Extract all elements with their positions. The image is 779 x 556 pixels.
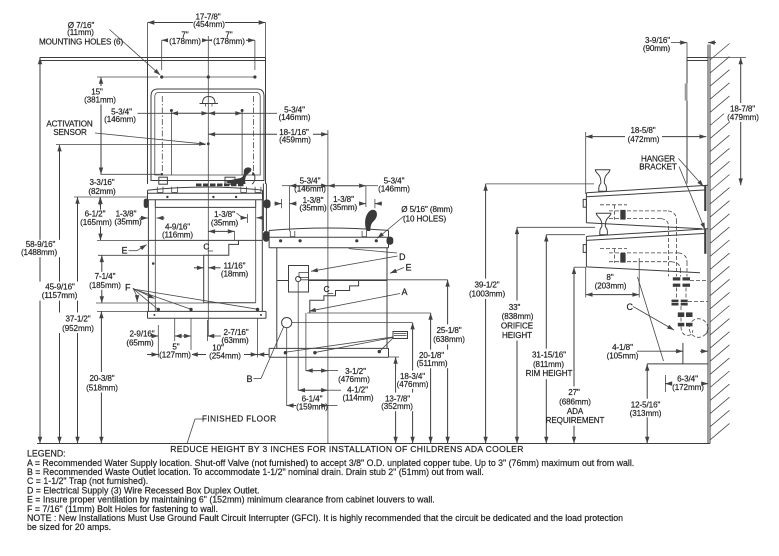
text 2-7/16 — [221, 328, 249, 345]
svg-text:7-1/4": 7-1/4" — [95, 272, 116, 281]
dim 18-3/4 — [292, 323, 413, 444]
bottle filler front panel outer — [151, 89, 264, 181]
dim 33 orifice height — [517, 227, 595, 443]
svg-text:(146mm): (146mm) — [294, 185, 326, 194]
wall section — [708, 45, 710, 444]
dim 31-15/16 rim height — [546, 235, 585, 444]
upper cooler side profile — [583, 185, 708, 229]
leader D — [311, 249, 398, 272]
svg-text:(127mm): (127mm) — [159, 351, 191, 360]
leader finished floor — [187, 419, 203, 444]
svg-text:SENSOR: SENSOR — [53, 128, 87, 137]
left basin band — [148, 190, 263, 200]
text 6-3/4 — [665, 375, 708, 392]
text 1-3/8 (a) — [114, 210, 142, 227]
dim 27 ADA — [574, 267, 586, 443]
svg-text:(686mm): (686mm) — [559, 397, 591, 406]
svg-text:(352mm): (352mm) — [381, 402, 413, 411]
left cooler mounting ear left — [144, 199, 149, 208]
svg-text:FINISHED FLOOR: FINISHED FLOOR — [202, 415, 277, 424]
centerline symbol right — [324, 284, 334, 294]
text oslash 5/16 — [401, 205, 453, 223]
text activation sensor — [46, 120, 93, 137]
right cooler mounting ear left — [263, 231, 269, 242]
lower cooler regulator valve — [620, 253, 625, 263]
dim 5-3/4 right cooler right — [328, 186, 378, 207]
text 27 ADA — [546, 386, 605, 425]
right cooler back panel step — [310, 281, 359, 314]
svg-text:(35mm): (35mm) — [299, 204, 327, 213]
svg-text:F: F — [125, 282, 131, 292]
svg-text:(116mm): (116mm) — [162, 230, 193, 239]
dim 5 inch — [147, 318, 191, 357]
svg-text:C: C — [627, 302, 634, 312]
right cooler cabinet — [277, 248, 387, 349]
svg-text:(90mm): (90mm) — [643, 44, 671, 53]
dim 7 inch pair — [162, 40, 255, 70]
leader B — [254, 327, 284, 379]
upper cooler hidden plumbing — [600, 205, 676, 277]
dim 6-1/4 — [287, 328, 328, 406]
svg-text:(63mm): (63mm) — [221, 336, 249, 345]
louver leader fan — [287, 337, 393, 352]
left cooler bottom bracket — [148, 311, 267, 318]
svg-text:HEIGHT: HEIGHT — [502, 331, 532, 340]
text 7-1/4 — [88, 272, 122, 290]
left basin drain grate — [196, 183, 244, 186]
svg-text:31-15/16": 31-15/16" — [532, 350, 566, 359]
left cooler cabinet — [148, 200, 262, 312]
text 7 inch right — [212, 31, 246, 47]
svg-text:(114mm): (114mm) — [342, 394, 373, 403]
svg-text:(811mm): (811mm) — [533, 360, 564, 369]
dim 18-5/8 — [586, 132, 707, 194]
text 18-7/8 — [724, 103, 761, 122]
right basin band — [269, 231, 388, 248]
leader C trap — [633, 307, 674, 331]
dim 7-1/4 — [96, 255, 204, 303]
left basin slots — [157, 187, 261, 193]
lower cooler hidden plumbing — [600, 249, 687, 277]
svg-text:(146mm): (146mm) — [104, 115, 136, 124]
text 4-1/8 — [607, 343, 639, 360]
left cooler bracket bolt holes — [157, 308, 260, 311]
svg-text:(454mm): (454mm) — [193, 20, 225, 29]
svg-text:ORIFICE: ORIFICE — [501, 322, 534, 331]
svg-text:C: C — [324, 284, 330, 294]
dim 15 inch — [97, 77, 160, 174]
svg-text:27": 27" — [568, 388, 580, 397]
text 37-1/2 — [56, 313, 99, 334]
right cooler mounting ear right — [387, 237, 394, 245]
text 18-5/8 — [625, 125, 662, 143]
svg-text:D: D — [399, 252, 406, 262]
svg-text:3-3/16": 3-3/16" — [89, 178, 114, 187]
text 10 inch — [206, 344, 244, 361]
left cooler back panel step — [204, 240, 256, 302]
text 1-3/8 (c) — [299, 196, 327, 213]
lower mounting holes — [160, 173, 254, 176]
connecting side panel — [262, 184, 264, 232]
svg-text:(178mm): (178mm) — [213, 37, 245, 46]
F bolt hole leader fan — [133, 288, 256, 309]
leader E left — [129, 245, 147, 251]
svg-text:E: E — [406, 262, 412, 272]
text 4-9/16 — [162, 223, 193, 240]
text 11/16 — [221, 261, 249, 278]
right cooler seam — [277, 280, 387, 282]
lower side bubbler — [596, 213, 611, 235]
dim 6-1/2 — [97, 197, 148, 240]
svg-text:(35mm): (35mm) — [114, 218, 142, 227]
left basin deck — [148, 187, 263, 190]
text 12-5/16 — [627, 399, 665, 418]
svg-text:(476mm): (476mm) — [397, 380, 429, 389]
svg-text:(18mm): (18mm) — [221, 269, 249, 278]
text 5 inch — [159, 343, 192, 360]
svg-text:(838mm): (838mm) — [502, 312, 534, 321]
svg-text:(638mm): (638mm) — [433, 335, 465, 344]
left basin bolt dots — [166, 196, 237, 198]
text 58-9/16 — [17, 240, 61, 257]
dim 1-3/8 (a) — [140, 217, 165, 219]
left cooler seam — [148, 239, 262, 241]
svg-text:(165mm): (165mm) — [80, 218, 112, 227]
bottle filler front panel inner — [155, 93, 260, 176]
dim 4-1/8 — [637, 350, 708, 352]
svg-text:(159mm): (159mm) — [296, 403, 328, 412]
dim 1-3/8 (d) — [359, 199, 382, 208]
vertical pipes dashed — [676, 281, 708, 323]
svg-text:(511mm): (511mm) — [416, 359, 447, 368]
svg-text:C: C — [203, 242, 209, 252]
bottle filler cabinet top cap — [40, 58, 266, 61]
svg-text:33": 33" — [509, 303, 521, 312]
svg-text:be sized for 20 amps.: be sized for 20 amps. — [27, 522, 111, 532]
svg-text:(313mm): (313mm) — [630, 409, 662, 418]
dim 37-1/2 vertical — [74, 197, 148, 444]
text 45-9/16 — [37, 282, 82, 301]
svg-text:RIM HEIGHT: RIM HEIGHT — [526, 369, 573, 378]
dim 11/16 — [194, 267, 221, 269]
text 39-1/2 — [468, 279, 507, 299]
svg-text:18-5/8": 18-5/8" — [630, 126, 655, 135]
svg-text:(952mm): (952mm) — [62, 324, 94, 333]
text hanger bracket — [639, 154, 677, 171]
left cooler mounting ear right — [264, 200, 271, 209]
dim 5-3/4 top-right — [208, 112, 277, 114]
svg-text:(11mm): (11mm) — [67, 28, 94, 37]
svg-text:(35mm): (35mm) — [330, 203, 358, 212]
svg-text:2-9/16": 2-9/16" — [129, 330, 154, 339]
text mounting holes note — [39, 21, 123, 47]
right basin slots — [290, 231, 366, 237]
waste stub — [647, 343, 708, 364]
leader oslash 5/16 — [377, 216, 404, 238]
dim 13-7/8 — [389, 357, 399, 444]
svg-text:(1488mm): (1488mm) — [21, 248, 57, 257]
svg-text:MOUNTING HOLES (6): MOUNTING HOLES (6) — [39, 38, 123, 47]
dim 6-3/4 — [665, 375, 708, 392]
svg-text:REDUCE HEIGHT BY 3 INCHES FOR: REDUCE HEIGHT BY 3 INCHES FOR INSTALLATI… — [170, 444, 523, 454]
dim 1-3/8 (b) — [237, 213, 263, 223]
svg-text:(1003mm): (1003mm) — [469, 290, 505, 299]
panel sensor holes — [170, 109, 244, 175]
dim 1-3/8 (c) — [275, 199, 297, 208]
right basin bubbler — [365, 210, 377, 231]
svg-text:E: E — [122, 246, 128, 256]
dim 25-1/8 — [301, 280, 448, 444]
text 18-3/4 — [396, 371, 430, 389]
top mounting holes row — [160, 75, 256, 78]
svg-text:(172mm): (172mm) — [672, 383, 704, 392]
right cooler bracket bolt holes — [284, 350, 381, 355]
dim 58-9/16 vertical — [39, 58, 41, 444]
dim 4-1/2 — [298, 282, 341, 391]
svg-text:39-1/2": 39-1/2" — [474, 280, 499, 289]
wall hatching — [710, 44, 730, 440]
leader A — [309, 294, 400, 312]
text 6-1/4 — [296, 394, 338, 411]
text 13-7/8 — [380, 393, 414, 412]
right cooler bottom bracket — [269, 348, 388, 357]
bottle filler cabinet sides — [148, 58, 266, 185]
dim 8 inch — [586, 258, 664, 361]
right cooler centerline — [327, 130, 329, 444]
bottle filler nozzle — [200, 97, 219, 107]
svg-text:(146mm): (146mm) — [279, 113, 311, 122]
svg-text:45-9/16": 45-9/16" — [45, 282, 75, 291]
dim 45-9/16 vertical — [56, 145, 205, 444]
text 17-7/8 — [193, 13, 225, 29]
supply pipe unions — [672, 277, 693, 326]
left cooler side bolt hole — [152, 262, 155, 265]
upper side bubbler — [595, 170, 610, 192]
svg-text:(518mm): (518mm) — [86, 383, 118, 392]
dim 3-1/2 — [306, 313, 338, 371]
leader activation sensor — [95, 133, 206, 144]
text 1-3/8 (d) — [330, 195, 358, 212]
text 25-1/8 — [432, 324, 466, 344]
svg-text:(146mm): (146mm) — [378, 185, 410, 194]
text 20-3/8 — [81, 372, 122, 393]
svg-text:B: B — [247, 374, 253, 384]
text 18-1/16 — [277, 128, 313, 144]
svg-text:37-1/2": 37-1/2" — [65, 314, 90, 323]
left cooler apron — [155, 200, 255, 208]
floor line — [37, 443, 710, 445]
legend block — [27, 449, 634, 533]
dim 18-7/8 — [708, 58, 746, 186]
centerline symbol left — [203, 242, 213, 252]
activation sensor point — [207, 142, 210, 145]
dim 17-7/8 — [148, 23, 266, 58]
svg-text:A: A — [402, 287, 408, 297]
text 5-3/4 cooler right — [378, 177, 410, 194]
dim 10 inch — [191, 318, 269, 357]
text 8 inch — [595, 273, 627, 291]
svg-text:ADA: ADA — [567, 407, 584, 416]
text 6-1/2 — [79, 209, 115, 226]
svg-text:(472mm): (472mm) — [628, 135, 660, 144]
bottle filler base feet — [159, 177, 235, 184]
svg-text:(476mm): (476mm) — [338, 375, 370, 384]
waste outlet B circle — [282, 318, 292, 328]
svg-text:(82mm): (82mm) — [88, 187, 116, 196]
svg-text:(254mm): (254mm) — [209, 351, 241, 360]
lower cooler side profile — [583, 229, 708, 273]
text 7 inch left — [168, 31, 202, 47]
text 2-9/16 — [126, 330, 154, 348]
leader mounting holes — [110, 30, 161, 76]
bottle filler side profile — [685, 58, 708, 184]
svg-text:(105mm): (105mm) — [607, 351, 639, 360]
svg-text:(10 HOLES): (10 HOLES) — [403, 214, 446, 223]
svg-text:BRACKET: BRACKET — [639, 162, 677, 171]
dim 2-7/16 — [183, 320, 221, 341]
text 15 inch — [83, 86, 118, 105]
svg-text:(479mm): (479mm) — [727, 113, 759, 122]
text 3-1/2 — [338, 367, 370, 384]
svg-text:20-3/8": 20-3/8" — [89, 374, 114, 383]
svg-text:(35mm): (35mm) — [211, 219, 239, 228]
hanger bracket plates — [704, 186, 706, 254]
text 20-1/8 — [414, 350, 449, 369]
text 3-3/16 — [88, 178, 116, 196]
dim 5-3/4 top-left — [138, 112, 209, 114]
electrical box D — [289, 266, 309, 293]
text 33 orifice height — [496, 301, 538, 341]
svg-text:(65mm): (65mm) — [126, 339, 154, 348]
trap (dashed) — [681, 319, 709, 338]
svg-text:(459mm): (459mm) — [279, 136, 311, 145]
dim 3-3/16 — [99, 197, 101, 205]
right basin bolt dots — [279, 239, 378, 242]
right basin deck — [269, 228, 388, 231]
dim 20-1/8 — [307, 313, 430, 444]
dim 39-1/2 — [486, 184, 594, 444]
dim 20-3/8 vertical — [97, 311, 148, 443]
svg-text:(178mm): (178mm) — [169, 37, 201, 46]
text 5-3/4 right — [279, 106, 311, 122]
svg-text:Ø 5/16" (8mm): Ø 5/16" (8mm) — [401, 205, 453, 214]
dim 3-9/16 — [671, 43, 716, 58]
leader E right — [390, 268, 404, 274]
dim 18-1/16 — [208, 133, 328, 135]
unit centerline — [207, 36, 209, 336]
text 3-9/16 — [643, 36, 671, 53]
mounting hole centerlines (dash-dot) — [161, 96, 163, 176]
svg-text:(381mm): (381mm) — [84, 96, 116, 105]
text 31-15/16 rim height — [525, 349, 572, 380]
dim 5-3/4 right cooler left — [282, 186, 328, 232]
leader hanger bracket — [679, 159, 706, 230]
svg-text:(203mm): (203mm) — [595, 281, 627, 290]
louver detail box — [393, 332, 408, 339]
upper cooler regulator valve — [620, 210, 625, 220]
text 1-3/8 (b) — [211, 210, 239, 227]
text 4-1/2 — [342, 385, 373, 402]
svg-text:25-1/8": 25-1/8" — [436, 326, 461, 335]
svg-text:(185mm): (185mm) — [89, 281, 121, 290]
text 5-3/4 left — [104, 108, 136, 124]
svg-text:NOTE : New Installations Must: NOTE : New Installations Must Use Ground… — [27, 513, 623, 523]
text 5-3/4 cooler left — [294, 177, 326, 194]
dim 12-5/16 — [646, 364, 648, 444]
svg-text:(1157mm): (1157mm) — [42, 291, 78, 300]
dim 2-9/16 — [151, 318, 183, 341]
svg-text:REQUIREMENT: REQUIREMENT — [546, 416, 605, 425]
left basin bubbler — [226, 167, 252, 184]
dim 4-9/16 — [208, 231, 234, 240]
